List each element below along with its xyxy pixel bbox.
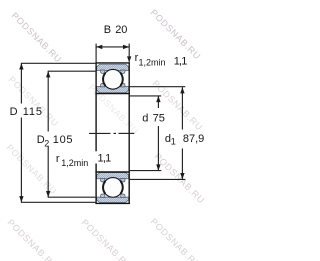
bearing top edge [95,62,129,64]
race shoulder arcs (top) [103,73,105,86]
inner ring section (top) [97,83,129,93]
bottom section top edge (bore bottom) [95,171,129,173]
dimension D: top extension line [21,62,96,64]
centerline (axis) [89,132,134,134]
dimension D: bottom arrow [19,196,23,202]
outer ring section (top) [97,64,129,73]
bearing bottom edge [95,202,129,204]
svg-text:2: 2 [44,138,49,148]
dimension B: dimension line [96,46,129,48]
svg-text:1,1: 1,1 [174,56,188,68]
svg-text:B 20: B 20 [104,24,128,36]
dimension B: extension line right / r leader [128,44,130,62]
svg-text:PODSNAB.RU: PODSNAB.RU [6,217,60,261]
svg-text:PODSNAB.RU: PODSNAB.RU [80,217,134,261]
svg-text:D 115: D 115 [10,106,43,118]
dimension B: left arrow [96,45,102,49]
svg-text:105: 105 [53,134,73,146]
ball (bottom) [103,178,123,198]
svg-text:87,9: 87,9 [183,133,204,145]
dimension D2: top extension line [48,70,96,72]
svg-text:PODSNAB.RU: PODSNAB.RU [5,142,59,196]
svg-text:r: r [56,153,60,165]
dimension D: dimension line (broken by text) [20,63,22,103]
dimension D2: dimension line (broken by text) [47,71,49,131]
bearing outline right edge [128,62,130,204]
svg-text:PODSNAB.RU: PODSNAB.RU [153,151,207,205]
svg-text:PODSNAB.RU: PODSNAB.RU [149,216,203,261]
svg-text:d 75: d 75 [142,112,165,124]
dimension d: dimension line (broken by text) [157,96,159,108]
dimension D2: top arrow [46,71,50,77]
svg-text:1,1: 1,1 [98,153,112,165]
inner ring section (bottom) [97,173,129,182]
dimension d1: bottom extension line [129,178,185,180]
dimension D2: bottom arrow [46,191,50,197]
top section bottom edge (bore top) [95,93,129,95]
dimension B: extension line left [95,44,97,63]
svg-text:1: 1 [171,137,176,147]
dimension d1: dimension line (broken by text) [181,87,183,129]
svg-text:PODSNAB.RU: PODSNAB.RU [10,10,64,64]
dimension B: right arrow [123,45,129,49]
dimension d: bottom arrow [156,164,160,170]
svg-text:1,2min: 1,2min [61,158,88,168]
svg-text:PODSNAB.RU: PODSNAB.RU [7,74,61,128]
outer ring section (bottom) [97,194,129,203]
race shoulder arcs (bottom) [103,181,105,194]
dimension d: top arrow [156,96,160,102]
r leader arrow (top-right chamfer) [127,56,131,62]
dimension d: bottom extension line [129,170,161,172]
bearing outline left edge (broken by 1,1 label) [95,62,97,151]
dimension D: bottom extension line [21,201,96,203]
dimension d: top extension line [129,95,161,97]
ball (top) [103,69,123,89]
svg-text:1,2min: 1,2min [139,57,166,67]
dimension d1: top arrow [180,87,184,93]
dimension D2: bottom extension line [48,196,96,198]
dimension D: top arrow [19,63,23,69]
dimension d1: bottom arrow [180,173,184,179]
svg-text:PODSNAB.RU: PODSNAB.RU [149,7,203,61]
dimension d1: top extension line [129,86,185,88]
